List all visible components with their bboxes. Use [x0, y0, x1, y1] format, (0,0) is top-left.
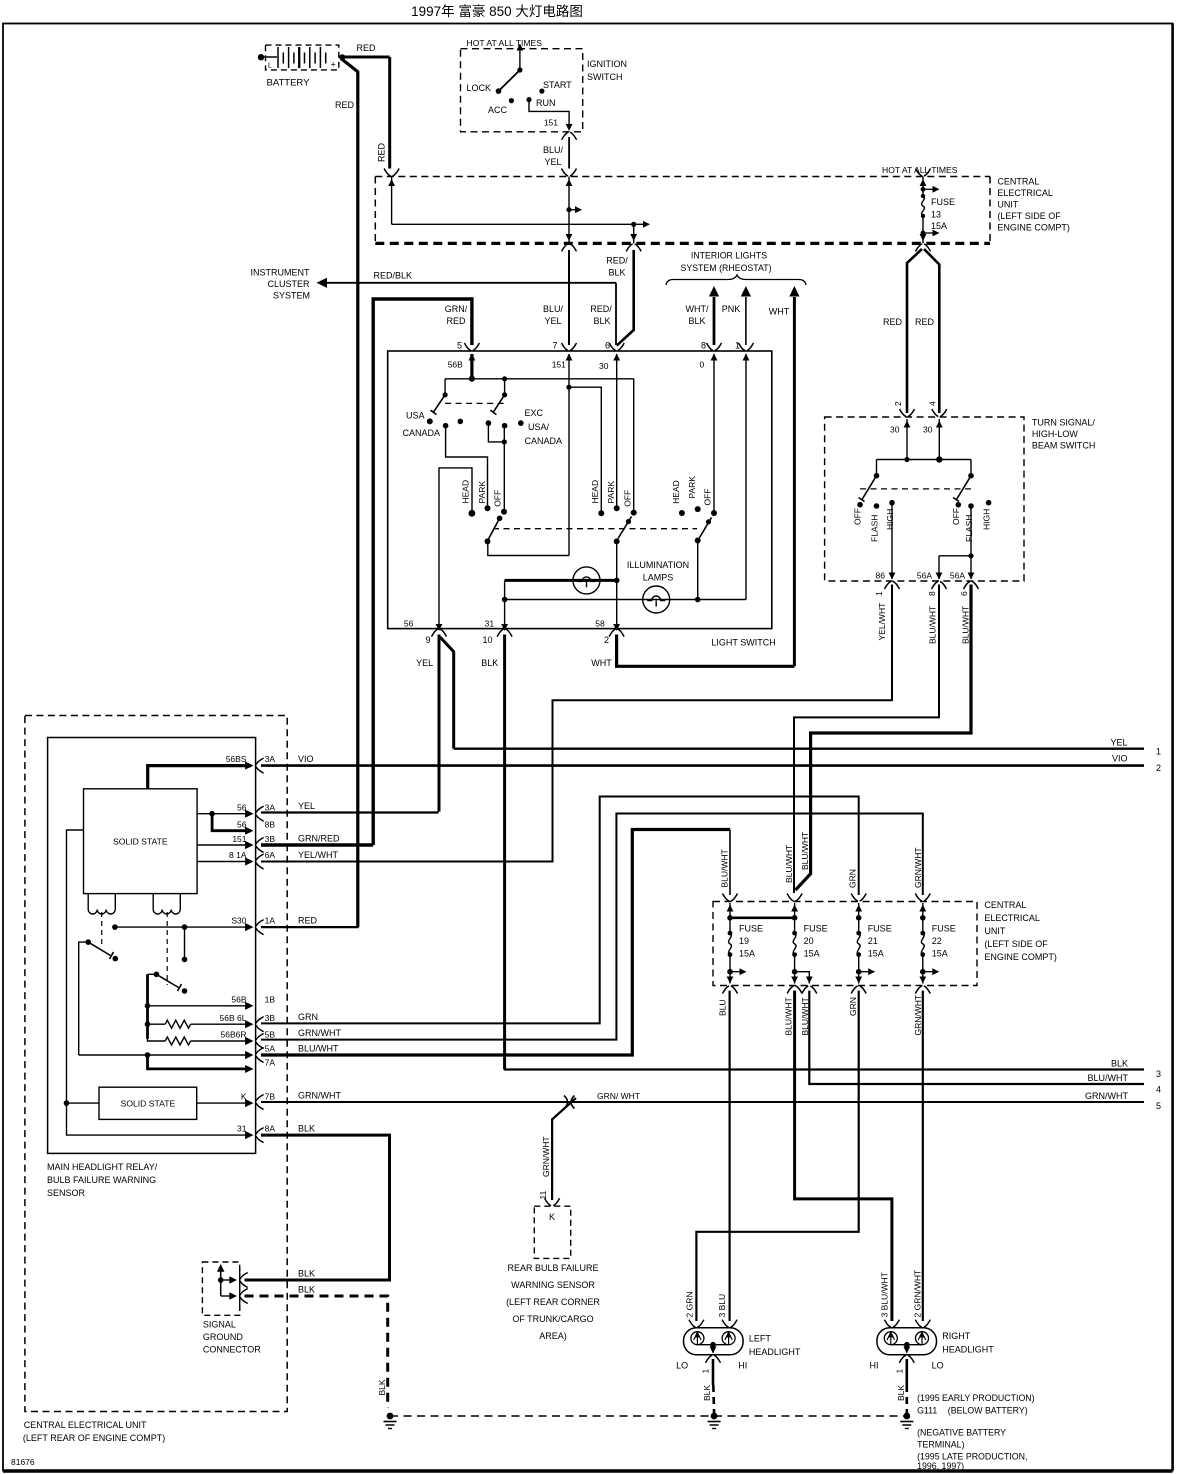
- turn signal 30 feeds: [904, 419, 943, 460]
- svg-text:BLU: BLU: [718, 999, 728, 1016]
- ignition contact START: [539, 80, 572, 94]
- svg-text:LEFT: LEFT: [749, 1334, 772, 1344]
- svg-text:UNIT: UNIT: [984, 926, 1005, 936]
- label WHT (pin 2): [591, 658, 612, 668]
- wire YEL/WHT ts pin1 to relay 6A: [261, 585, 892, 862]
- wire K to pin 7B: [197, 1099, 254, 1107]
- connector light switch pin 8: [701, 341, 722, 361]
- svg-text:6: 6: [605, 341, 610, 351]
- wire RUN to pin 151: [529, 100, 573, 131]
- coil 2 actuating link (dashed): [166, 912, 168, 985]
- label GRN/RED (relay): [298, 834, 340, 844]
- connector ts pin 8: [927, 582, 947, 597]
- ignition switch box: [461, 49, 583, 132]
- svg-text:BEAM SWITCH: BEAM SWITCH: [1032, 441, 1096, 451]
- diagram number 81676: [11, 1457, 35, 1467]
- wire GRN/WHT fuse22 to right headlight: [922, 991, 924, 1321]
- svg-text:BLU/WHT: BLU/WHT: [800, 997, 810, 1035]
- wire YEL relay 3A to pin 9 riser: [261, 811, 439, 813]
- svg-text:RED: RED: [298, 916, 318, 926]
- wire 31 to pin 8A: [67, 1103, 254, 1139]
- label SIGNAL GROUND CONNECTOR: [203, 1320, 261, 1355]
- connector relay pin 6A: [256, 854, 264, 869]
- svg-text:4: 4: [928, 401, 938, 406]
- label 56B (1B): [231, 995, 246, 1005]
- svg-text:56B: 56B: [448, 360, 463, 370]
- wire BLK right headlight to ground: [905, 1359, 908, 1413]
- label 3A (56BS): [265, 754, 276, 764]
- svg-text:FUSE: FUSE: [804, 924, 828, 934]
- svg-text:22: 22: [932, 936, 942, 946]
- svg-text:GRN/WHT: GRN/WHT: [913, 847, 923, 888]
- connector relay pin 5A: [256, 1048, 264, 1063]
- label 56 (3A): [237, 803, 247, 813]
- wire BLU/WHT ts pin8 to fuse 20: [794, 585, 939, 894]
- svg-text:UNIT: UNIT: [997, 200, 1018, 210]
- svg-text:LO: LO: [676, 1361, 688, 1371]
- svg-text:1997年 富豪 850 大灯电路图: 1997年 富豪 850 大灯电路图: [411, 3, 583, 19]
- ts left switch pivot: [874, 460, 880, 479]
- wire RED left to turn signal pin 2: [907, 249, 922, 413]
- label RED (relay 1A): [298, 916, 318, 926]
- svg-text:BLK: BLK: [298, 1269, 315, 1279]
- bank1 contact PARK: [477, 481, 491, 512]
- label 30 (pin 6): [599, 361, 609, 371]
- svg-text:CENTRAL: CENTRAL: [984, 900, 1026, 910]
- svg-text:RED/BLK: RED/BLK: [374, 271, 413, 281]
- svg-text:0: 0: [700, 360, 705, 370]
- wire WHT/BLK arrow to rheostat: [709, 286, 719, 345]
- fuse 22: [915, 894, 956, 994]
- light switch pin8 line to bank3 off: [713, 354, 715, 513]
- svg-text:15A: 15A: [931, 221, 947, 231]
- fuse19-fuse20 link: [730, 916, 795, 919]
- relay switch 1: [85, 939, 118, 961]
- svg-text:15A: 15A: [932, 949, 948, 959]
- label RED/BLK (lower): [590, 304, 612, 326]
- svg-text:8B: 8B: [265, 820, 276, 830]
- label BLU/WHT (fuse20 feed thin): [784, 845, 794, 883]
- connector RED pair below CEU: [916, 244, 931, 252]
- label PNK: [722, 304, 741, 314]
- wire GRN relay 3B to fuse 21: [261, 797, 859, 1024]
- svg-text:CONNECTOR: CONNECTOR: [203, 1345, 261, 1355]
- wire bank2 common to pin 2: [614, 541, 620, 628]
- svg-text:21: 21: [868, 936, 878, 946]
- wire lamp ground riser: [502, 580, 508, 628]
- label RED/BLK (upper): [606, 256, 628, 278]
- label 56 (8B): [237, 820, 247, 830]
- ground bus (dashed): [390, 1415, 907, 1417]
- svg-text:3A: 3A: [265, 754, 276, 764]
- label 3B (GRN): [265, 1013, 276, 1023]
- svg-text:(1995 LATE PRODUCTION,: (1995 LATE PRODUCTION,: [917, 1452, 1027, 1462]
- connector ts pin 6: [959, 582, 979, 597]
- label G111 notes: [917, 1393, 1035, 1471]
- svg-text:RED: RED: [883, 317, 903, 327]
- svg-text:PNK: PNK: [722, 304, 741, 314]
- svg-text:VIO: VIO: [1112, 754, 1128, 764]
- svg-text:FLASH: FLASH: [870, 515, 880, 542]
- fuse 20: [787, 894, 828, 994]
- svg-text:GRN/RED: GRN/RED: [298, 834, 340, 844]
- wire BLK line 3: [504, 1068, 1144, 1070]
- svg-text:151: 151: [544, 118, 558, 128]
- wire BLK relay 8A to signal ground: [245, 1135, 390, 1280]
- svg-text:GRN/WHT: GRN/WHT: [1085, 1091, 1128, 1101]
- label BLK (8A wire): [298, 1124, 315, 1134]
- light switch pin6 line to bank2: [616, 354, 618, 508]
- wire BLU/WHT relay 5A to fuse 19: [261, 830, 730, 1056]
- label YEL/WHT (relay): [298, 850, 339, 860]
- svg-text:BLU/WHT: BLU/WHT: [298, 1044, 339, 1054]
- wire 56BS to pin 3A: [148, 762, 254, 789]
- bank2 contact OFF: [623, 490, 637, 516]
- connector relay pin 3A-1: [256, 758, 264, 773]
- svg-text:8: 8: [701, 341, 706, 351]
- svg-text:YEL/WHT: YEL/WHT: [877, 603, 887, 641]
- svg-text:INTERIOR LIGHTS: INTERIOR LIGHTS: [691, 251, 767, 261]
- label 151 (pin 7): [552, 360, 566, 370]
- label BLU/WHT (ts pin6): [961, 606, 971, 644]
- svg-text:6: 6: [959, 591, 969, 596]
- label 4 (line 4): [1156, 1085, 1161, 1095]
- label YEL (relay): [298, 801, 315, 811]
- svg-text:(1995 EARLY PRODUCTION): (1995 EARLY PRODUCTION): [917, 1393, 1035, 1403]
- label BLK (dashed ground wire): [298, 1285, 315, 1295]
- inline connector on line 5: [564, 1096, 575, 1109]
- wire bank1 common to 151 line: [488, 541, 569, 555]
- svg-text:INSTRUMENT: INSTRUMENT: [251, 268, 310, 278]
- svg-text:S30: S30: [231, 916, 246, 926]
- label 2 GRN (left headlight): [684, 1292, 694, 1318]
- label VIO (line 2 right): [1112, 754, 1128, 764]
- wire RED/BLK CEU to light switch pin 6: [617, 250, 634, 346]
- svg-text:EXC: EXC: [525, 408, 544, 418]
- svg-text:PARK: PARK: [687, 476, 697, 499]
- fuse 21: [851, 894, 892, 994]
- svg-text:BLK: BLK: [1111, 1059, 1128, 1069]
- svg-text:3A: 3A: [265, 803, 276, 813]
- svg-text:2: 2: [604, 635, 609, 645]
- svg-text:5: 5: [1156, 1101, 1161, 1111]
- coil 1 actuating link (dashed): [101, 912, 103, 948]
- svg-text:CANADA: CANADA: [525, 436, 563, 446]
- svg-text:BLU/WHT: BLU/WHT: [720, 849, 730, 887]
- svg-text:BLK: BLK: [298, 1124, 315, 1134]
- connector RED/BLK below CEU: [626, 244, 641, 252]
- svg-text:11: 11: [538, 1190, 548, 1199]
- wire RED/BLK to instrument cluster: [317, 278, 617, 345]
- svg-text:SWITCH: SWITCH: [587, 72, 623, 82]
- svg-text:30: 30: [599, 361, 609, 371]
- bank2 switch blade: [614, 517, 632, 545]
- svg-text:(LEFT REAR CORNER: (LEFT REAR CORNER: [506, 1297, 600, 1307]
- label GRN/WHT (fuse22 out): [913, 995, 923, 1036]
- lamp1 feed line: [505, 579, 617, 582]
- ts left blade: [859, 476, 877, 502]
- ts left contact HIGH: [885, 500, 895, 530]
- wire bank3 common to lamp line: [697, 541, 699, 600]
- label GRN (relay): [298, 1012, 318, 1022]
- connector relay pin 8A: [256, 1128, 264, 1143]
- title: [411, 3, 583, 19]
- label 5B: [265, 1030, 276, 1040]
- svg-text:GRN/WHT: GRN/WHT: [298, 1028, 341, 1038]
- svg-text:BLU/WHT: BLU/WHT: [928, 606, 938, 644]
- ts wire flash to pins 8 and 6: [936, 506, 975, 580]
- connector relay pin 3A-2: [256, 806, 264, 821]
- svg-text:HI: HI: [738, 1361, 747, 1371]
- ground point G (left): [384, 1413, 397, 1429]
- connector pin 151 ignition: [562, 132, 577, 140]
- svg-text:HEAD: HEAD: [590, 480, 600, 504]
- svg-text:56A: 56A: [917, 571, 932, 581]
- svg-text:FUSE: FUSE: [868, 924, 892, 934]
- svg-text:BLU/: BLU/: [543, 145, 564, 155]
- relay switch 2: [154, 972, 188, 994]
- bank2 contact HEAD: [590, 480, 604, 516]
- svg-text:GRN/: GRN/: [445, 304, 468, 314]
- connector light switch pin 7: [552, 341, 576, 361]
- svg-text:1: 1: [735, 341, 740, 351]
- svg-text:ACC: ACC: [488, 105, 508, 115]
- svg-text:WARNING SENSOR: WARNING SENSOR: [511, 1280, 595, 1290]
- svg-text:BLU/WHT: BLU/WHT: [961, 606, 971, 644]
- label 56A (pin 8): [917, 571, 932, 581]
- light switch 56B bus: [445, 354, 634, 382]
- label BLU/WHT (fuse20 out thick): [784, 997, 794, 1035]
- svg-text:20: 20: [804, 936, 814, 946]
- svg-text:13: 13: [931, 210, 941, 220]
- usa/canada switch 1: [427, 379, 463, 429]
- ts right contact OFF: [951, 502, 961, 525]
- rear bulb failure sensor box: [534, 1206, 570, 1258]
- svg-text:56B 6L: 56B 6L: [220, 1013, 247, 1023]
- label CENTRAL ELECTRICAL UNIT (top right): [997, 177, 1070, 233]
- relay switch 2 fixed contact: [182, 927, 188, 962]
- svg-text:1B: 1B: [265, 995, 276, 1005]
- label HOT AT ALL TIMES (ignition): [467, 38, 543, 48]
- label 56B 6L: [220, 1013, 247, 1023]
- svg-text:1A: 1A: [265, 916, 276, 926]
- label BLU/WHT (ts pin8): [928, 606, 938, 644]
- relay coil 1: [88, 894, 115, 914]
- svg-text:31: 31: [485, 619, 495, 629]
- resistor 56B6L: [148, 1020, 254, 1028]
- ignition contact ACC: [488, 98, 514, 115]
- svg-text:6A: 6A: [265, 850, 276, 860]
- light switch bottom pin 31/10: [482, 619, 512, 646]
- svg-text:PARK: PARK: [477, 481, 487, 504]
- connector relay pin 3B-1: [256, 838, 264, 853]
- ts right contact HIGH: [982, 500, 992, 530]
- bank2 contact PARK: [606, 481, 620, 512]
- svg-text:8 1A: 8 1A: [229, 850, 247, 860]
- turn signal bus: [877, 456, 972, 462]
- svg-text:YEL: YEL: [1110, 738, 1127, 748]
- label 1B: [265, 995, 276, 1005]
- svg-text:CENTRAL: CENTRAL: [997, 177, 1039, 187]
- label 56B (pin 5): [448, 360, 463, 370]
- label GRN (fuse21 feed): [848, 869, 858, 888]
- bank1 contact OFF: [493, 490, 508, 515]
- label TURN SIGNAL/HIGH-LOW BEAM SWITCH: [1032, 418, 1096, 451]
- label 1 (line 1): [1156, 747, 1161, 757]
- wire WHT arrow to rheostat: [789, 286, 799, 666]
- connector left headlight pin 3: [722, 1320, 737, 1328]
- label 5A: [265, 1044, 276, 1054]
- svg-text:56BS: 56BS: [226, 754, 247, 764]
- svg-text:YEL: YEL: [544, 316, 561, 326]
- svg-text:GRN/WHT: GRN/WHT: [298, 1091, 341, 1101]
- label REAR BULB FAILURE WARNING SENSOR: [506, 1263, 600, 1341]
- svg-text:7B: 7B: [265, 1092, 276, 1102]
- CEU internal BLU/YEL branch: [566, 177, 582, 244]
- svg-text:ILLUMINATION: ILLUMINATION: [627, 560, 689, 570]
- connector light switch pin 6: [605, 341, 624, 361]
- wire 56B to pin 1B: [148, 1002, 254, 1010]
- svg-text:G111: G111: [917, 1406, 937, 1416]
- wire bank1 head to pin 9 riser: [439, 468, 472, 629]
- label 5 (line 5): [1156, 1101, 1161, 1111]
- svg-text:HI: HI: [870, 1361, 879, 1371]
- svg-text:15A: 15A: [868, 949, 884, 959]
- svg-text:HEAD: HEAD: [671, 480, 681, 504]
- label INTERIOR LIGHTS SYSTEM (RHEOSTAT): [680, 251, 771, 274]
- svg-text:CANADA: CANADA: [402, 428, 440, 438]
- wire GRN/WHT branch to rear sensor: [552, 1098, 576, 1200]
- bank1 contact HEAD: [461, 480, 476, 517]
- connector turn signal pin 2: [890, 409, 915, 435]
- svg-text:LAMPS: LAMPS: [643, 573, 674, 583]
- battery label: [267, 78, 311, 89]
- label BLU/WHT (line 4): [1088, 1073, 1129, 1083]
- svg-text:WHT: WHT: [769, 307, 790, 317]
- wire BLK pin10 down: [503, 635, 506, 1070]
- label ILLUMINATION LAMPS: [627, 560, 689, 583]
- svg-text:BLK: BLK: [702, 1385, 712, 1401]
- label 2 GRN/WHT (right headlight): [913, 1270, 923, 1318]
- wire PNK arrow to rheostat: [741, 286, 751, 345]
- label GRN/WHT (fuse22 feed): [913, 847, 923, 888]
- svg-text:3 BLU/WHT: 3 BLU/WHT: [880, 1272, 890, 1317]
- label BLK (right headlight): [896, 1385, 906, 1401]
- svg-text:151: 151: [552, 360, 566, 370]
- label 7A: [265, 1058, 276, 1068]
- svg-text:YEL/WHT: YEL/WHT: [298, 850, 339, 860]
- svg-text:BLK: BLK: [481, 658, 498, 668]
- svg-text:3B: 3B: [265, 834, 276, 844]
- svg-text:TERMINAL): TERMINAL): [917, 1440, 964, 1450]
- svg-text:15A: 15A: [739, 949, 755, 959]
- svg-text:SOLID STATE: SOLID STATE: [113, 837, 168, 847]
- label RED/BLK (instrument cluster): [374, 271, 413, 281]
- label BLK (left headlight): [702, 1385, 712, 1401]
- svg-text:3B: 3B: [265, 1013, 276, 1023]
- label WHT (rheostat): [769, 307, 790, 317]
- resistor 56B6R: [148, 1037, 254, 1045]
- svg-text:BLU/WHT: BLU/WHT: [784, 845, 794, 883]
- light switch bottom pin 58/2: [595, 619, 624, 646]
- svg-text:+: +: [331, 60, 336, 70]
- svg-text:ELECTRICAL: ELECTRICAL: [997, 188, 1053, 198]
- label 6A: [265, 850, 276, 860]
- svg-text:56B6R: 56B6R: [221, 1030, 247, 1040]
- svg-text:OFF: OFF: [623, 490, 633, 507]
- wire GRN/RED relay 3B: [261, 843, 373, 846]
- svg-text:151: 151: [232, 834, 246, 844]
- ground point G111: [900, 1413, 913, 1429]
- svg-text:HOT AT ALL TIMES: HOT AT ALL TIMES: [467, 38, 543, 48]
- connector relay pin 7B: [256, 1095, 264, 1110]
- label CENTRAL ELECTRICAL UNIT (fuse box): [984, 900, 1057, 962]
- wire 81A to pin 6A: [197, 857, 253, 865]
- wire RED relay 1A: [261, 926, 359, 928]
- wire BLU fuse19 to left headlight: [728, 991, 730, 1321]
- wire GRN fuse21 to left headlight: [696, 991, 858, 1321]
- wire 151 branch to bank2 head: [569, 387, 601, 511]
- rheostat bracket: [666, 275, 806, 285]
- svg-text:PARK: PARK: [606, 481, 616, 504]
- label 81A: [229, 850, 247, 860]
- label RED RED (pair): [883, 317, 935, 327]
- connector light switch pin 1: [735, 341, 754, 361]
- svg-text:OFF: OFF: [703, 489, 713, 506]
- svg-text:2: 2: [893, 401, 903, 406]
- label GRN/WHT (line 5 right): [1085, 1091, 1128, 1101]
- label LO (left): [676, 1361, 688, 1371]
- usa/canada switch 2: [486, 379, 524, 429]
- label VIO (relay): [298, 754, 314, 764]
- connector BLU/YEL below CEU: [562, 244, 577, 252]
- svg-text:BLK: BLK: [608, 268, 625, 278]
- svg-text:HIGH-LOW: HIGH-LOW: [1032, 429, 1079, 439]
- svg-text:OFF: OFF: [493, 490, 503, 507]
- connector turn signal pin 4: [923, 409, 947, 435]
- wire 56 to pin 3A YEL: [197, 810, 253, 818]
- solid state module 2: [99, 1087, 197, 1119]
- svg-text:FUSE: FUSE: [932, 924, 956, 934]
- solid state module 1: [84, 789, 198, 894]
- svg-text:CENTRAL ELECTRICAL UNIT: CENTRAL ELECTRICAL UNIT: [24, 1420, 147, 1430]
- label GRN/WHT (line 5 mid): [597, 1091, 640, 1101]
- label BLU/WHT (relay 5A): [298, 1044, 339, 1054]
- svg-text:2 GRN/WHT: 2 GRN/WHT: [913, 1270, 923, 1318]
- label BLK (line 3): [1111, 1059, 1128, 1069]
- bank1 switch blade: [485, 516, 503, 545]
- svg-text:HEADLIGHT: HEADLIGHT: [942, 1345, 994, 1355]
- label YEL/WHT (ts pin1): [877, 603, 887, 641]
- connector right headlight pin 1: [894, 1355, 914, 1373]
- svg-text:56: 56: [237, 803, 247, 813]
- connector light switch pin 5: [457, 341, 479, 361]
- svg-text:30: 30: [923, 425, 933, 435]
- svg-text:86: 86: [876, 571, 886, 581]
- svg-text:WHT/: WHT/: [686, 304, 709, 314]
- label 2 (line 2): [1156, 763, 1161, 773]
- bank3 switch blade: [695, 518, 712, 544]
- mechanical link usa/canada (dashed): [445, 402, 505, 404]
- wire RED battery to central electrical unit (vertical x=389.7): [339, 54, 390, 168]
- svg-text:56: 56: [237, 820, 247, 830]
- signal ground connector box: [202, 1262, 239, 1315]
- svg-text:LIGHT SWITCH: LIGHT SWITCH: [711, 638, 775, 648]
- svg-text:8: 8: [927, 591, 937, 596]
- ignition contact RUN: [526, 97, 555, 108]
- svg-text:WHT: WHT: [591, 658, 612, 668]
- svg-text:GRN: GRN: [298, 1012, 318, 1022]
